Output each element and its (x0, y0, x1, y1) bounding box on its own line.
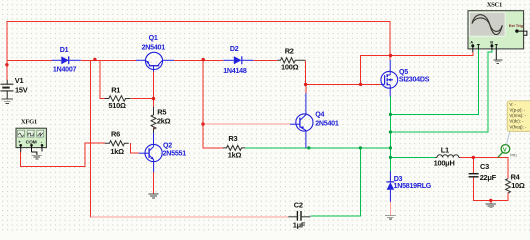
svg-text:1μF: 1μF (293, 221, 306, 230)
wire R6 left to XFG1 (21, 143, 105, 166)
probe PR1 readout box (507, 101, 530, 144)
node junction D2 branch (202, 58, 205, 61)
svg-text:V: -: V: - (509, 102, 516, 107)
svg-text:V(freq): -: V(freq): - (509, 124, 527, 129)
node junction at V1 (5, 63, 8, 66)
wire R5 to Q2 pin (blue) (153, 133, 155, 145)
ground under scope B (493, 60, 502, 64)
svg-text:V(rms): -: V(rms): - (509, 113, 526, 118)
ground under C3 R4 row (486, 204, 496, 208)
node junction ground C3 R4 row (489, 199, 492, 202)
wire mid bus segment D2 to R2 (253, 59, 277, 61)
wire top bus 15V (7, 20, 391, 22)
svg-text:100μH: 100μH (434, 158, 455, 167)
resistor R1 510 ohm (105, 86, 131, 111)
svg-text:XFG1: XFG1 (21, 119, 37, 126)
node junction source scope B (389, 130, 392, 133)
svg-text:1kΩ: 1kΩ (228, 151, 242, 160)
svg-text:R6: R6 (111, 130, 120, 139)
svg-text:Q4: Q4 (315, 111, 324, 119)
wire drain node to scope A (391, 52, 473, 56)
svg-text:D2: D2 (230, 45, 239, 53)
svg-text:L1: L1 (441, 145, 449, 154)
wire D2 R2 node down to R3 (203, 60, 223, 148)
wire D3 cathode (green) (389, 157, 391, 171)
svg-text:A: A (470, 40, 473, 45)
wire C3 bottom to ground row (473, 177, 508, 200)
wire R5 bottom to Q2 collector (153, 128, 155, 133)
wire mid bus segment D1 to Q1 (81, 59, 136, 61)
resistor R5 2k ohm (vertical) (151, 107, 171, 133)
wire ground stub C3 R4 row (490, 200, 492, 203)
wire Q5 drain from top bus (389, 21, 391, 60)
wire Q5 source down (green) (389, 96, 391, 157)
wire Q4 collector up (305, 84, 307, 93)
wire R3 to source node (green) (245, 147, 390, 149)
battery V1 (1, 76, 28, 99)
diode D2 1N4148 (223, 45, 253, 75)
wire source node to L1 (green) (390, 156, 435, 158)
svg-text:Q1: Q1 (149, 34, 158, 42)
svg-text:V(p-p): -: V(p-p): - (509, 108, 525, 113)
oscilloscope XSC1 (468, 2, 527, 60)
wire R2 corner down to gate node (306, 60, 381, 84)
svg-text:R3: R3 (228, 134, 237, 143)
node junction source scope A (389, 113, 392, 116)
wire source node to scope B (green) (390, 47, 491, 132)
node junction source L1 row (389, 156, 392, 159)
svg-text:V(dc): -: V(dc): - (509, 119, 524, 124)
node junction gate row right (359, 83, 362, 86)
svg-text:1N4007: 1N4007 (53, 65, 77, 73)
resistor R6 1k ohm (105, 130, 129, 156)
transistor Q2 2N5551 NPN (139, 141, 186, 172)
node junction C2 branch (359, 146, 362, 149)
node junction gate row left (304, 83, 307, 86)
wire C3 top lead (472, 157, 474, 173)
wire D3 anode to ground (salmon) (389, 202, 391, 216)
svg-text:22μF: 22μF (480, 173, 497, 182)
svg-text:2N5551: 2N5551 (163, 149, 187, 157)
svg-text:1kΩ: 1kΩ (110, 147, 124, 156)
wire L1 right to R4 corner (460, 157, 508, 178)
ground under XFG1 (32, 155, 42, 159)
wire Q2 emitter to ground (153, 172, 155, 194)
wire gate node up and over (361, 56, 391, 85)
svg-text:V1: V1 (15, 76, 24, 85)
resistor R4 10 ohm (vertical) (506, 172, 525, 193)
svg-text:2N5401: 2N5401 (142, 44, 166, 52)
wire bottom bus to C2 (91, 216, 289, 218)
svg-text:C2: C2 (294, 201, 303, 210)
wire branch down to C2 (green) (310, 148, 360, 216)
diode D1 1N4007 (52, 46, 81, 73)
svg-text:1N4148: 1N4148 (223, 67, 247, 75)
ground under D3 (385, 215, 395, 219)
resistor R2 100 ohm (278, 46, 306, 71)
svg-text:15V: 15V (15, 86, 28, 95)
svg-text:V: V (503, 148, 507, 154)
node junction at D1 branch (93, 58, 96, 61)
wire R1 to node (131, 98, 154, 100)
wire vertical branch to bottom bus (90, 60, 92, 217)
resistor R3 1k ohm (223, 134, 245, 159)
diode D3 1N5819RLG (vertical) (386, 171, 431, 202)
inductor L1 100uH (434, 145, 461, 167)
ground under Q2 (148, 194, 158, 198)
svg-text:XSC1: XSC1 (487, 2, 502, 9)
svg-text:C3: C3 (480, 162, 489, 171)
transistor Q1 2N5401 PNP (136, 34, 174, 72)
svg-text:1N5819RLG: 1N5819RLG (394, 182, 432, 190)
probe PR1 (498, 145, 517, 158)
svg-text:100Ω: 100Ω (281, 63, 299, 72)
svg-text:10Ω: 10Ω (511, 181, 525, 190)
svg-text:Q2: Q2 (163, 141, 172, 149)
MOSFET Q5 SI2304DS (381, 60, 430, 96)
wire vertical branch to R1 (100, 60, 105, 98)
svg-text:Ext Trig: Ext Trig (509, 24, 524, 28)
wire source node to scope A- (green) (390, 47, 478, 115)
svg-text:R2: R2 (285, 46, 294, 55)
node junction Q4 emitter (307, 146, 310, 149)
capacitor C2 1uF (288, 201, 310, 230)
svg-text:D1: D1 (60, 46, 69, 54)
node junction drain row (389, 54, 392, 57)
wire V1 vertical (6, 21, 8, 80)
svg-text:PR1: PR1 (510, 154, 517, 158)
ground under V1 (1, 99, 13, 104)
node junction R3 to Q4 base (201, 122, 204, 125)
wire Q1 base down (153, 72, 155, 107)
svg-text:2kΩ: 2kΩ (157, 116, 171, 125)
wire node to Q4 base (salmon) (203, 123, 290, 125)
svg-text:2N5401: 2N5401 (315, 120, 339, 128)
svg-text:R1: R1 (111, 86, 120, 95)
transistor Q4 2N5401 PNP (290, 93, 339, 148)
svg-text:SI2304DS: SI2304DS (399, 75, 430, 83)
node junction C3 top (472, 156, 475, 159)
wire mid bus segment Q1 to D2 (174, 59, 223, 61)
node junction R1 R5 Q1 (152, 97, 155, 100)
capacitor C3 22uF (469, 162, 497, 182)
svg-text:R5: R5 (157, 108, 166, 117)
function generator XFG1 (16, 119, 46, 155)
svg-text:B: B (490, 40, 493, 45)
node junction source R3 row (389, 146, 392, 149)
wire mid bus segment V1 to D1 (7, 59, 52, 61)
svg-text:510Ω: 510Ω (108, 101, 126, 110)
wire Q2 base from R6 (130, 143, 139, 153)
